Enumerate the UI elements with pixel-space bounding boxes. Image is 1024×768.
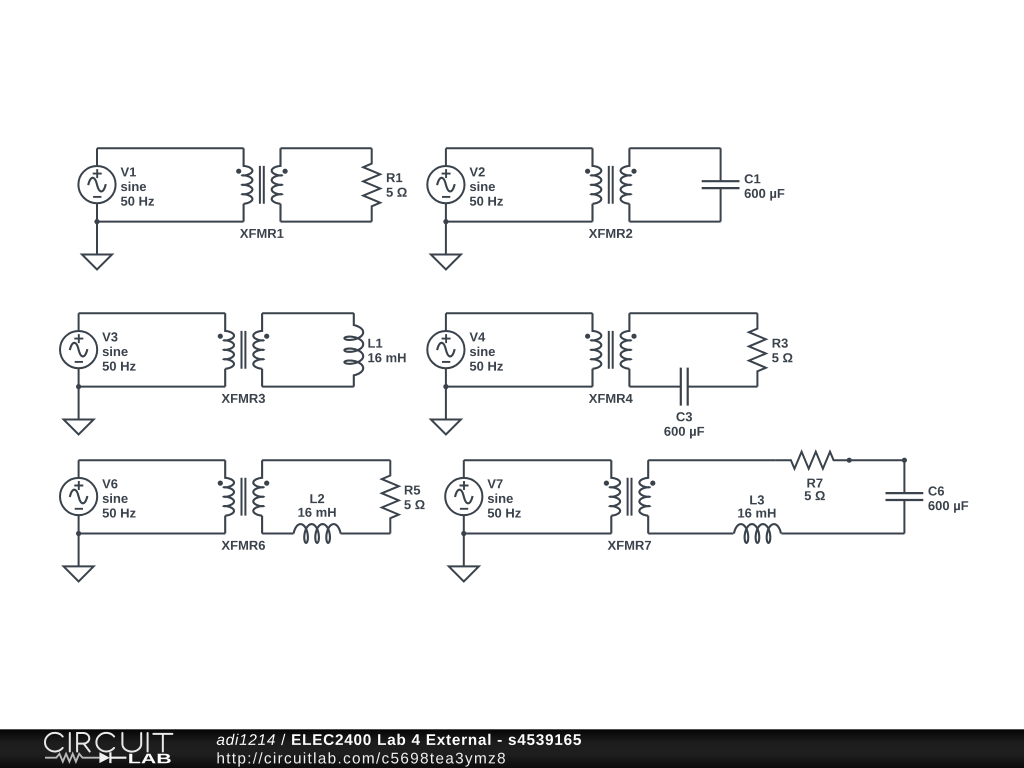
label C1 value [745,174,785,200]
capacitor C3 [681,368,688,406]
transformer XFMR2 core [609,166,613,204]
wire XFMR7 secondary bottom left [648,533,733,535]
resistor R7 [776,452,849,469]
ground [449,534,479,582]
wire V4 top [446,312,593,314]
junction node at V7 minus [461,531,466,536]
transformer XFMR1 polarity dot primary [236,169,241,174]
label V1 value [121,168,154,206]
wire XFMR6 secondary bottom right [341,533,391,535]
transformer XFMR3 secondary winding [253,313,263,386]
label XFMR3 [222,394,266,403]
label L3 value [738,495,775,517]
wire V7 bottom [464,533,612,535]
wire R7 to C6 corner [849,459,905,461]
CircuitLab logo word CIRCUIT [45,733,172,752]
transformer XFMR2 polarity dot primary [585,169,590,174]
label V4 value [470,333,503,371]
voltage source V3 [60,331,97,368]
voltage source V2 [427,166,464,203]
wire V1 bottom [97,221,244,223]
ground [82,222,112,270]
logo resistor symbol [45,754,99,762]
node dot at top right corner [902,458,907,463]
wire V2 to top [445,148,447,166]
logo word LAB [129,754,171,764]
footer bar [0,729,1024,768]
wire XFMR2 secondary bottom [629,221,720,223]
wire V3 to top [78,313,80,331]
label V7 value [487,479,520,517]
resistor R1 [363,148,380,221]
logo letter U [122,733,141,752]
footer url text [218,752,505,766]
label V2 value [470,167,503,205]
wire XFMR1 secondary top [281,147,372,149]
transformer XFMR6 polarity dot secondary [264,481,269,486]
wire V7 to bottom [463,515,465,533]
label C6 value [928,486,968,512]
voltage source V1 [78,166,115,203]
transformer XFMR1 polarity dot secondary [283,169,288,174]
transformer XFMR1 core [260,166,264,204]
voltage source V4 [427,331,464,368]
wire V7 to top [463,460,465,478]
node dot at R7 right pin [847,458,852,463]
transformer XFMR7 primary winding [610,460,620,533]
wire XFMR7 secondary bottom right [781,533,904,535]
transformer XFMR3 polarity dot secondary [264,334,269,339]
wire XFMR2 secondary top [629,147,720,149]
wire V1 to bottom [96,203,98,221]
transformer XFMR3 primary winding [224,313,234,386]
label XFMR6 [222,541,266,550]
label XFMR4 [589,394,633,403]
wire V2 top [446,147,593,149]
wire V2 bottom [446,221,593,223]
wire V3 to bottom [78,368,80,386]
inductor L1 [344,313,363,386]
wire V7 top [464,459,612,461]
transformer XFMR2 secondary winding [621,148,631,221]
ground [431,387,461,435]
transformer XFMR6 secondary winding [253,460,263,533]
label XFMR7 [608,541,651,550]
transformer XFMR7 polarity dot primary [604,481,609,486]
label V6 value [102,479,135,517]
inductor L3 [734,524,781,543]
transformer XFMR7 secondary winding [639,460,649,533]
junction node at V3 minus [76,384,81,389]
wire XFMR4 secondary bottom left [629,386,680,388]
wire V3 top [79,312,226,314]
ground [431,222,461,270]
footer title text [217,734,581,745]
transformer XFMR7 polarity dot secondary [650,481,655,486]
wire XFMR6 secondary bottom left [262,533,294,535]
logo letter I [69,733,71,752]
junction node at V6 minus [76,531,81,536]
transformer XFMR6 primary winding [224,460,234,533]
label C3 value [664,412,704,438]
logo letter I [147,733,149,752]
transformer XFMR4 polarity dot primary [585,334,590,339]
junction node at V4 minus [443,384,448,389]
wire V6 bottom [79,533,226,535]
wire V4 to top [445,313,447,331]
wire V6 to top [78,460,80,478]
wire XFMR7 secondary top [648,459,775,461]
logo diode symbol [99,752,110,763]
ground [64,534,94,582]
wire XFMR3 secondary bottom [262,386,354,388]
wire V2 to bottom [445,203,447,221]
ground [64,387,94,435]
transformer XFMR4 core [609,331,613,369]
transformer XFMR3 core [242,331,246,369]
junction node at V2 minus [443,219,448,224]
wire XFMR3 secondary top [262,312,354,314]
wire XFMR6 secondary top [262,459,390,461]
wire V3 bottom [79,386,226,388]
wire XFMR1 secondary bottom [281,221,372,223]
transformer XFMR4 polarity dot secondary [631,334,636,339]
transformer XFMR4 secondary winding [621,313,631,386]
label R3 value [772,339,792,363]
wire XFMR4 secondary bottom right [688,386,758,388]
capacitor C6 [903,460,905,533]
label XFMR1 [240,229,284,238]
label R1 value [386,173,406,197]
wire V1 to top [96,148,98,166]
voltage source V6 [60,478,97,515]
label R7 value [805,479,825,501]
transformer XFMR1 primary winding [242,148,252,221]
wire XFMR4 secondary top [629,312,757,314]
transformer XFMR3 polarity dot primary [218,334,223,339]
label L1 value [368,339,405,363]
junction node at V1 minus [94,219,99,224]
label R5 value [404,486,424,510]
transformer XFMR2 primary winding [591,148,601,221]
logo letter T [153,734,172,752]
label XFMR2 [589,229,633,238]
inductor L2 [294,524,341,543]
resistor R5 [382,460,399,533]
logo letter R [77,733,90,752]
transformer XFMR6 polarity dot primary [218,481,223,486]
voltage source V7 [445,478,482,515]
transformer XFMR2 polarity dot secondary [631,169,636,174]
resistor R3 [749,313,766,386]
transformer XFMR7 core [628,478,632,516]
wire V1 top [97,147,244,149]
wire V6 top [79,459,226,461]
label L2 value [298,494,335,517]
wire V6 to bottom [78,515,80,533]
capacitor C1 [720,148,722,221]
transformer XFMR6 core [242,478,246,516]
wire V4 bottom [446,386,593,388]
transformer XFMR4 primary winding [591,313,601,386]
label V3 value [102,332,135,370]
wire V4 to bottom [445,368,447,386]
logo letter C [45,733,63,752]
transformer XFMR1 secondary winding [272,148,282,221]
logo letter C [96,733,114,752]
